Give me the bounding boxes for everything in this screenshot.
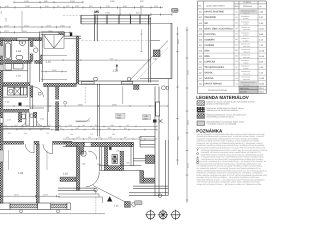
svg-text:PODLAHA: PODLAHA — [243, 5, 253, 8]
vertical white wall mid — [99, 147, 102, 171]
bathtub — [4, 42, 12, 60]
svg-text:IZBA: IZBA — [204, 55, 210, 58]
wall to fireplace — [133, 159, 145, 161]
svg-text:OZN: OZN — [235, 5, 240, 8]
washer 1 — [112, 155, 118, 159]
lower wall band checker with doors — [0, 141, 24, 144]
door pivot circle 2 — [127, 77, 131, 81]
svg-text:42,37: 42,37 — [259, 27, 264, 30]
svg-text:1180: 1180 — [24, 0, 29, 3]
svg-text:m²: m² — [260, 5, 263, 8]
dimension chain y27 — [1, 26, 71, 28]
svg-text:TECHNICKÁ MIES.: TECHNICKÁ MIES. — [204, 66, 225, 69]
entry checker piece — [59, 32, 64, 35]
svg-text:300: 300 — [112, 133, 115, 136]
left outer wall insulated — [0, 38, 3, 204]
basin small room — [30, 114, 33, 117]
room interior dim marks — [9, 150, 48, 170]
right wall vertical lower — [155, 87, 159, 197]
washbasin — [19, 41, 25, 45]
big door arc room 1.01 — [86, 172, 99, 188]
door rect on right wall — [156, 102, 160, 116]
stove cross — [14, 87, 21, 95]
kitchen wall vertical x30 lower — [30, 86, 33, 110]
sill jambs — [10, 203, 71, 210]
entry threshold — [41, 32, 65, 35]
svg-text:M5: M5 — [94, 10, 99, 14]
chimney pair above band — [95, 15, 98, 41]
svg-text:1020: 1020 — [25, 5, 31, 8]
svg-text:4,25: 4,25 — [259, 66, 263, 69]
overhang line right — [167, 78, 169, 140]
door pivot circle bath — [34, 48, 38, 52]
vertical guide left — [21, 11, 23, 32]
svg-text:7,30: 7,30 — [259, 44, 263, 47]
circle by square — [132, 203, 136, 207]
svg-text:8,86: 8,86 — [259, 33, 263, 36]
svg-text:1.NP: 1.NP — [172, 10, 178, 13]
dim chains small rooms — [1, 125, 158, 130]
svg-text:6,42: 6,42 — [259, 60, 263, 63]
window sill left 1 — [10, 204, 38, 213]
svg-text:1180: 1180 — [5, 18, 8, 22]
svg-text:06: 06 — [236, 38, 238, 41]
kitchen counter — [3, 86, 28, 97]
mid room labels — [82, 150, 131, 167]
porch column — [70, 32, 72, 36]
legend item 3 swatch — [197, 114, 205, 119]
svg-text:755: 755 — [46, 132, 49, 135]
table header text — [198, 1, 262, 8]
svg-text:KUCHYŇA: KUCHYŇA — [204, 33, 216, 36]
svg-text:PODLAHA: PODLAHA — [243, 46, 250, 48]
right wall of top section — [149, 17, 151, 82]
dim numbers above mid band — [66, 136, 142, 139]
right wall of mid block — [131, 142, 133, 165]
legend item 1 text — [207, 100, 256, 105]
checker corner below band — [134, 85, 140, 90]
small rooms walls left — [3, 112, 50, 128]
triangle marker — [107, 196, 112, 201]
room 1.15 label with arrow — [113, 64, 119, 72]
svg-text:1.09: 1.09 — [18, 172, 24, 175]
svg-text:SPÁLŇA: SPÁLŇA — [204, 77, 214, 80]
left wall window 2 — [0, 64, 3, 70]
checker corner bottom left of 1.01 — [60, 177, 76, 182]
bath door gap — [30, 47, 33, 54]
svg-text:11: 11 — [236, 66, 238, 69]
svg-text:IZBA: IZBA — [204, 49, 210, 52]
svg-text:01: 01 — [236, 11, 238, 14]
svg-text:CHODBA: CHODBA — [204, 44, 214, 47]
terrace step lines — [58, 190, 103, 203]
room legend table — [198, 1, 267, 94]
window sill left 2 — [51, 204, 67, 213]
svg-text:121,6: 121,6 — [259, 87, 264, 90]
bottom survey symbol 1 — [145, 210, 155, 220]
vertical checker wall br — [140, 171, 144, 184]
svg-text:1.01: 1.01 — [114, 205, 119, 208]
leader note living room — [76, 118, 91, 122]
dimension line above left wall — [1, 31, 71, 33]
svg-text:2160: 2160 — [70, 0, 76, 3]
dashed pole line — [95, 197, 97, 214]
wc small room — [22, 114, 26, 119]
table floor col4 text — [241, 9, 255, 86]
dashed vertical below band — [84, 87, 86, 103]
mid dim line across living room — [1, 105, 169, 107]
circle at wall corner — [162, 86, 166, 90]
window sill top-left — [17, 38, 29, 41]
dim lines in hall — [41, 55, 67, 72]
terrace bottom right walls — [129, 140, 168, 195]
svg-text:13: 13 — [236, 77, 238, 80]
svg-text:1,95: 1,95 — [259, 22, 263, 25]
svg-text:300: 300 — [98, 136, 101, 139]
bottom survey symbol 2 — [158, 210, 168, 220]
grey tag bottom — [135, 201, 143, 205]
bathroom 1.14 walls — [28, 38, 30, 61]
door arc 1 — [25, 144, 34, 153]
table floor col4 shaded cells — [239, 9, 258, 15]
dimension chain top line 2 — [1, 6, 164, 8]
svg-text:PODLAHA: PODLAHA — [243, 79, 250, 81]
svg-text:1.11: 1.11 — [5, 101, 10, 104]
toilet — [16, 55, 23, 59]
grey tag top right — [172, 8, 179, 12]
entry double door — [44, 35, 64, 48]
legend item 2 swatch — [197, 107, 205, 112]
vertical checker wall B — [104, 147, 108, 166]
svg-text:11,85: 11,85 — [259, 55, 264, 58]
chimney block on diagonal — [154, 50, 161, 57]
svg-text:PODLAHA: PODLAHA — [243, 29, 250, 31]
left wall window 4 — [0, 118, 3, 123]
svg-text:CELKOVÁ PLOCHA: CELKOVÁ PLOCHA — [208, 89, 228, 92]
table area col5 — [259, 11, 264, 86]
bottom checker band mid block — [99, 166, 141, 171]
svg-text:980: 980 — [124, 136, 127, 139]
vertical checker wall between 1.09 1.10 — [36, 144, 39, 203]
sliding door 2 — [121, 82, 133, 84]
door arcs small rooms — [21, 121, 26, 126]
svg-text:1.1A: 1.1A — [16, 50, 22, 53]
svg-text:240: 240 — [70, 133, 73, 136]
wall x30 mid — [28, 60, 30, 82]
top window band wall — [81, 15, 151, 24]
terrace circle — [158, 194, 161, 197]
table ozn col3 — [236, 11, 238, 86]
left wall window 3 — [0, 150, 3, 162]
fireplace dark blocks — [146, 155, 155, 164]
circle on diagonal — [94, 188, 97, 191]
svg-text:KRYTÁ TERASA: KRYTÁ TERASA — [204, 83, 222, 86]
room label 1.04 grey — [116, 113, 126, 119]
svg-text:KÚPEĽŇA: KÚPEĽŇA — [204, 60, 215, 63]
small dark fixture — [109, 147, 111, 150]
svg-text:1440: 1440 — [108, 136, 112, 139]
svg-text:04: 04 — [236, 27, 238, 30]
corner blob — [77, 142, 84, 154]
svg-text:PODLAHA: PODLAHA — [243, 51, 250, 53]
wc mid — [81, 151, 86, 156]
svg-text:12: 12 — [236, 71, 238, 74]
dimension chain top line 1 — [14, 1, 83, 3]
middle rooms: wall lines — [63, 142, 133, 146]
svg-text:03: 03 — [236, 22, 238, 25]
svg-text:350: 350 — [110, 57, 113, 60]
right dim numbers — [177, 39, 190, 168]
checker top wall x33.5 — [34, 112, 37, 118]
top-left wall band with window — [0, 38, 42, 41]
kitchen bottom wall checker — [0, 109, 29, 112]
svg-text:05: 05 — [236, 33, 238, 36]
bottom dimension line — [1, 195, 61, 197]
svg-text:525: 525 — [0, 11, 3, 14]
middle rooms: checker band seg1 — [66, 142, 85, 146]
svg-text:115: 115 — [90, 133, 93, 136]
pivot circle wall door — [64, 101, 67, 104]
svg-text:142,3: 142,3 — [259, 91, 264, 94]
legend item 2 text — [207, 107, 245, 112]
svg-text:PODLAHA: PODLAHA — [243, 74, 250, 76]
interior wall x98.7 — [98, 84, 100, 136]
wall band mid checker 2 — [44, 83, 77, 86]
legend item 3 text — [207, 113, 247, 118]
dashed ceiling line 1.15 — [81, 40, 151, 42]
svg-text:VONKAJŠIE SPEVNENÉ PLOCHY – BE: VONKAJŠIE SPEVNENÉ PLOCHY – BETÓNOVÁ DLA… — [197, 183, 263, 186]
chain connectors — [120, 7, 141, 15]
svg-text:LEGENDA MATERIÁLOV: LEGENDA MATERIÁLOV — [196, 95, 249, 100]
thin wall kitchen x47 — [47, 87, 49, 112]
roof dash top mid — [63, 14, 81, 16]
dimension numbers top — [5, 0, 158, 8]
svg-text:OBÝV. IZBA s KUCHYŇOU: OBÝV. IZBA s KUCHYŇOU — [204, 27, 232, 30]
svg-text:885: 885 — [88, 136, 91, 139]
svg-text:1.16: 1.16 — [16, 75, 21, 78]
covered terrace top right outline — [151, 23, 172, 78]
svg-text:1460: 1460 — [105, 12, 111, 15]
svg-text:ZÁDVERIE: ZÁDVERIE — [204, 16, 216, 19]
terrace diagonal — [130, 41, 168, 81]
svg-text:1.13: 1.13 — [46, 60, 52, 63]
left wall window 1 — [0, 46, 3, 57]
tiny dim text cluster — [4, 124, 129, 136]
svg-text:KOMORA: KOMORA — [204, 38, 215, 41]
wall x76 vertical — [76, 36, 79, 84]
horizontal checker wall br — [144, 178, 155, 183]
boiler dark — [19, 103, 22, 106]
thin vertical guide — [122, 86, 124, 104]
svg-text:07: 07 — [236, 44, 238, 47]
legend item 4 text — [207, 121, 245, 126]
svg-text:1.15: 1.15 — [113, 69, 119, 73]
right vertical dimension line B — [186, 27, 188, 203]
svg-text:WC: WC — [204, 22, 208, 25]
south wall room 1.01 — [58, 188, 96, 190]
svg-text:2,15: 2,15 — [259, 38, 263, 41]
poznamka text lines — [197, 133, 269, 186]
svg-text:PODLAHA: PODLAHA — [243, 57, 250, 59]
table room names col2 — [204, 11, 232, 86]
wall vertical checker x55.5 — [56, 87, 59, 100]
hall wall left vertical — [40, 33, 43, 82]
room label 1.05 grey — [142, 114, 150, 120]
svg-text:16,52: 16,52 — [259, 83, 264, 86]
terrace inner dim — [140, 29, 142, 52]
dim line y60 across 1.15 — [42, 59, 150, 61]
vertical checker small — [18, 112, 21, 122]
dark checker square — [125, 202, 131, 208]
second bath room below band left — [3, 64, 28, 71]
svg-text:4,56: 4,56 — [259, 11, 263, 14]
svg-text:5,21: 5,21 — [259, 16, 263, 19]
middle rooms: checker band seg2 — [91, 142, 133, 146]
svg-text:02: 02 — [236, 16, 238, 19]
svg-text:1105: 1105 — [76, 136, 80, 139]
table row numbers col1 — [199, 11, 203, 86]
hall top wall — [64, 32, 81, 39]
wall band mid white part — [79, 81, 159, 84]
svg-text:PLOCHA: PLOCHA — [244, 1, 253, 4]
washer 2 — [112, 159, 118, 163]
table summary row — [198, 86, 267, 94]
svg-text:12,46: 12,46 — [259, 49, 264, 52]
dimension chain top line 3 — [94, 13, 172, 15]
svg-text:09: 09 — [236, 55, 238, 58]
svg-text:625: 625 — [8, 132, 11, 135]
sliding door 1 — [81, 82, 94, 84]
x marker right wall — [153, 119, 163, 123]
vertical checker wall C — [120, 151, 124, 166]
svg-text:450: 450 — [66, 136, 69, 139]
legend item 1 swatch — [197, 101, 205, 106]
right vertical dimension line A — [176, 27, 178, 165]
svg-text:1.10: 1.10 — [63, 173, 69, 176]
wall band mid checker left — [3, 83, 30, 86]
svg-text:KRYTÉ ZÁVETRIE: KRYTÉ ZÁVETRIE — [204, 11, 224, 14]
diagonal leader — [93, 186, 124, 202]
svg-text:NÁZOV MIESTNOSTI: NÁZOV MIESTNOSTI — [206, 4, 225, 7]
small room labels — [7, 118, 45, 122]
door arc small mid — [88, 151, 97, 160]
svg-text:10: 10 — [236, 60, 238, 63]
dim chain above mid band — [63, 138, 157, 140]
door arc hall-kitchen — [33, 87, 43, 97]
svg-text:ŠATNÍK: ŠATNÍK — [204, 72, 213, 75]
svg-text:4,10: 4,10 — [259, 72, 263, 75]
bottom survey symbol 3 — [170, 210, 180, 220]
svg-text:14,30: 14,30 — [259, 77, 264, 80]
wall band checker y60 — [0, 60, 31, 63]
vertical checker wall A — [76, 147, 80, 191]
door arc 2 — [43, 144, 53, 154]
walls right mid horizontal — [140, 137, 155, 148]
svg-text:14: 14 — [236, 82, 238, 85]
svg-text:podlahové kúrenie: podlahové kúrenie — [76, 119, 91, 122]
door pivot circle 1 — [94, 77, 98, 81]
svg-text:08: 08 — [236, 49, 238, 52]
sink circle — [9, 89, 13, 93]
svg-text:340: 340 — [24, 132, 27, 135]
table rows — [198, 14, 267, 86]
poznamka margin symbols — [197, 149, 199, 164]
svg-text:1890: 1890 — [110, 0, 116, 3]
bottom-most line — [0, 213, 105, 215]
legend item 4 swatch — [197, 121, 205, 125]
bottom wall left with windows — [0, 203, 71, 210]
svg-text:1.0B: 1.0B — [23, 118, 28, 121]
